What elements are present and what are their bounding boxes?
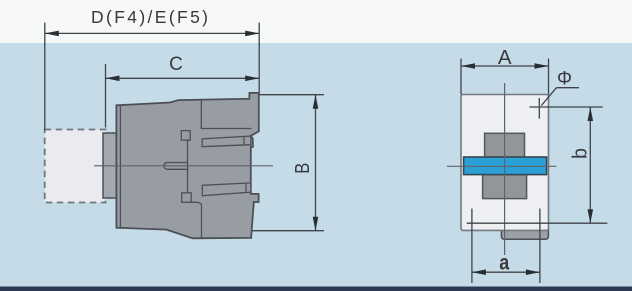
svg-text:a: a xyxy=(499,252,509,275)
svg-text:Φ: Φ xyxy=(557,69,572,90)
svg-text:B: B xyxy=(292,163,314,174)
svg-text:A: A xyxy=(498,46,512,69)
svg-text:C: C xyxy=(169,54,183,75)
svg-text:D(F4)/E(F5): D(F4)/E(F5) xyxy=(91,7,208,27)
svg-text:b: b xyxy=(570,148,592,159)
